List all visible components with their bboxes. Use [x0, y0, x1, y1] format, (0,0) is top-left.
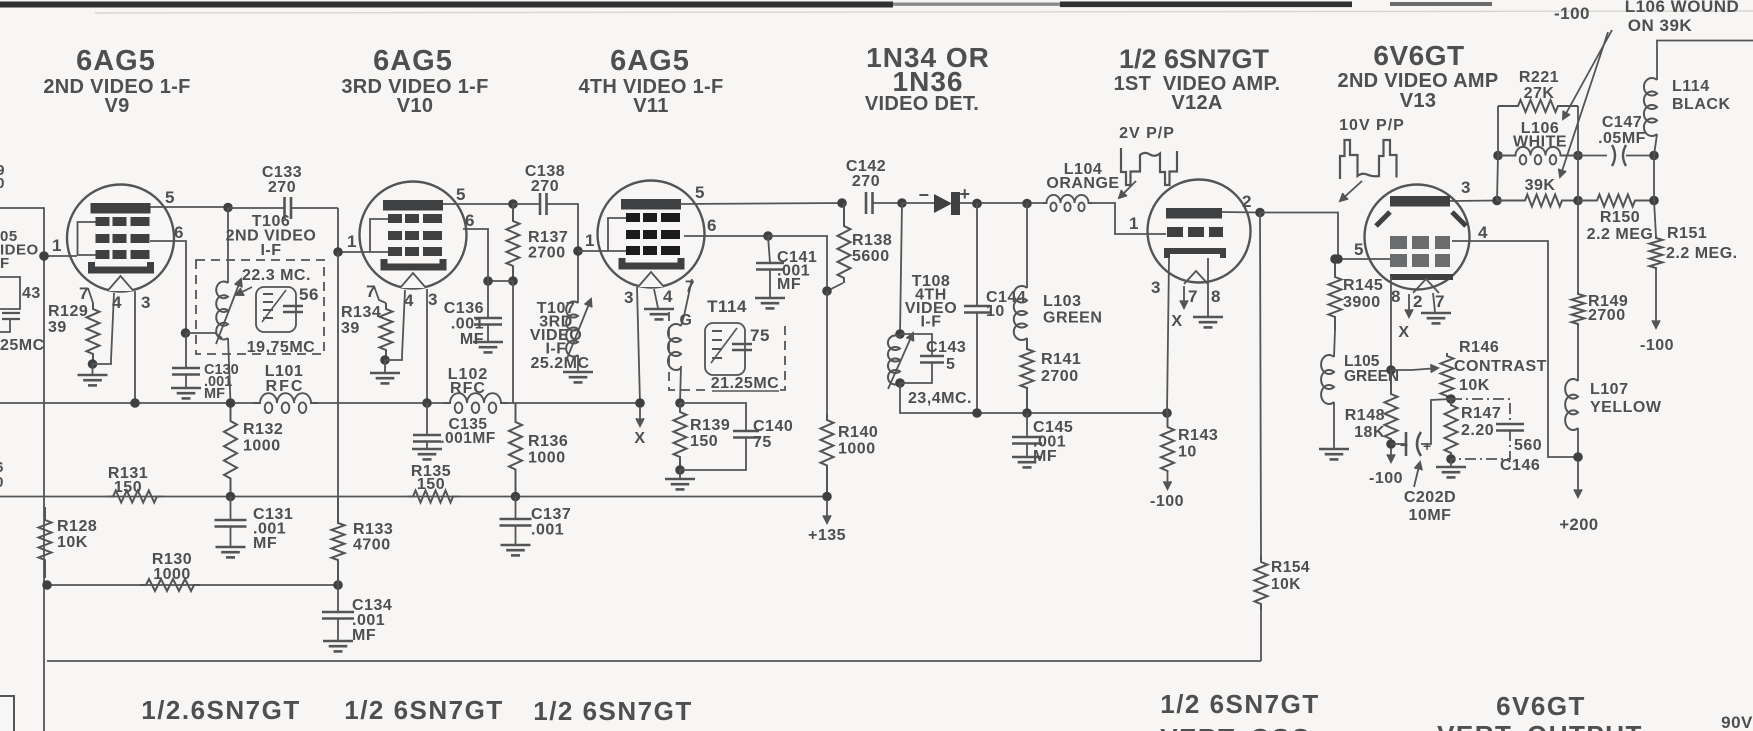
svg-text:27K: 27K [1524, 85, 1555, 102]
wire L103 to R141 [1026, 338, 1028, 349]
svg-text:1000: 1000 [838, 441, 876, 458]
svg-text:R138: R138 [852, 232, 892, 249]
label C142 [846, 158, 886, 190]
wire R149 to L107 [1577, 326, 1579, 381]
label R145 [1343, 277, 1383, 311]
wire screen to R138 [768, 236, 827, 291]
wire C135 lead [426, 403, 428, 435]
resistor R146 contrast pot [1441, 353, 1454, 399]
ground V9 cathode [78, 375, 108, 385]
svg-text:1: 1 [347, 232, 357, 251]
node L103 top [1022, 199, 1032, 209]
svg-text:270: 270 [852, 173, 880, 190]
wire C140 bottom [680, 438, 746, 471]
svg-text:L106 WOUND: L106 WOUND [1625, 0, 1740, 16]
svg-text:X: X [634, 430, 645, 447]
arrow +135 [823, 500, 831, 523]
label R148 [1345, 407, 1385, 441]
svg-text:1000: 1000 [528, 450, 566, 467]
resistor R128 [39, 507, 52, 578]
node V9 cathode [88, 359, 98, 369]
pin 6 of V11 [707, 216, 717, 235]
label 10V P/P [1339, 117, 1405, 134]
wire grid return bus [47, 584, 338, 586]
resistor R131 [107, 491, 163, 503]
arrow 10V P/P [1340, 181, 1362, 201]
wire V11 pin3 [637, 287, 640, 403]
pin 2 of V12A [1242, 192, 1252, 211]
node R150 right [1649, 196, 1659, 206]
svg-text:.001: .001 [531, 522, 564, 539]
wire C147 link [1578, 155, 1607, 157]
label V9 title [76, 45, 156, 77]
wire V9 pin3 [134, 291, 136, 403]
svg-text:6V6GT: 6V6GT [1373, 40, 1464, 71]
wire L104 to V12A [1092, 203, 1166, 234]
svg-text:−: − [1400, 437, 1408, 453]
svg-text:43: 43 [22, 285, 41, 302]
wire R154 to bus [1260, 610, 1262, 661]
label L114 [1672, 78, 1731, 113]
svg-text:C202D: C202D [1404, 489, 1456, 506]
svg-text:1: 1 [1129, 214, 1139, 233]
inductor L103 [1014, 286, 1027, 340]
svg-text:CONTRAST: CONTRAST [1454, 358, 1547, 375]
svg-text:18K: 18K [1354, 424, 1385, 441]
label 22.3 MC. [242, 267, 311, 284]
wire T106 primary top lead [227, 260, 229, 283]
svg-text:2.2 MEG.: 2.2 MEG. [1666, 245, 1738, 262]
coil T108 [888, 336, 900, 385]
ground V10 cathode [370, 373, 400, 383]
svg-text:75: 75 [753, 434, 772, 451]
pin 8 of V13 [1391, 287, 1401, 306]
resistor R139 [674, 403, 687, 470]
node V10 grid [333, 247, 343, 257]
pin 5 of V9 [165, 188, 175, 207]
label V12A subtitle [1114, 73, 1281, 114]
svg-text:8: 8 [1391, 287, 1401, 306]
svg-text:3: 3 [1461, 178, 1471, 197]
arrow R143 -100 [1164, 472, 1172, 489]
transformer T106 core symbol [256, 287, 303, 332]
wire T106 secondary tap [186, 333, 222, 338]
ground C136 [473, 342, 503, 352]
node bus3 left [42, 580, 52, 590]
svg-text:22.3 MC.: 22.3 MC. [242, 267, 311, 284]
resistor R148 [1385, 370, 1398, 444]
label R140 [838, 424, 878, 458]
pin 3 of V11 [624, 288, 634, 307]
svg-text:2700: 2700 [1041, 368, 1079, 385]
wire V9 cathode gnd lead [92, 364, 94, 374]
wire V10 pin4 [385, 290, 405, 360]
svg-text:10V P/P: 10V P/P [1339, 117, 1405, 134]
wire V9 pin1 grid [44, 255, 77, 257]
svg-text:7: 7 [1188, 287, 1198, 306]
resistor R135 [407, 491, 459, 503]
pin 8 of V12A [1211, 287, 1221, 306]
pin 6 of V10 [465, 211, 475, 230]
partial label left 6 [0, 459, 4, 476]
resistor R141 [1021, 338, 1034, 413]
tube V10 [360, 182, 467, 289]
svg-text:7: 7 [79, 284, 89, 303]
label 19.75MC [247, 339, 315, 356]
pin 7 of V9 [79, 284, 89, 303]
svg-text:5600: 5600 [852, 248, 890, 265]
wire diode leads [902, 202, 934, 204]
svg-text:25.2MC: 25.2MC [530, 355, 589, 372]
node +135 [822, 492, 832, 502]
node V10 screen [483, 276, 493, 286]
label T108 [905, 273, 957, 331]
node R137 bottom [508, 276, 518, 286]
label R147 [1461, 405, 1501, 439]
label R134 [341, 304, 381, 337]
wire V9 pin7 [88, 288, 93, 303]
label C202D [1404, 489, 1456, 524]
node T108 top [895, 329, 905, 339]
wire V9 pin5 plate [150, 206, 228, 208]
inductor L106 [1498, 147, 1578, 165]
label V13 title [1373, 40, 1464, 71]
svg-text:25MC: 25MC [0, 337, 45, 354]
label R146 [1459, 339, 1499, 356]
wire V11 pin6 [684, 235, 768, 237]
label R128 [57, 518, 97, 551]
svg-text:5: 5 [165, 188, 175, 207]
resistor 39K [1497, 195, 1578, 207]
svg-text:I-F: I-F [260, 242, 281, 259]
label R138 [852, 232, 892, 265]
svg-text:MF: MF [253, 535, 277, 552]
label C130 [204, 362, 239, 402]
label R149 [1588, 293, 1628, 324]
wire L114 bottom lead [1654, 134, 1657, 156]
svg-text:-100: -100 [1369, 470, 1403, 487]
label R151 value [1666, 245, 1738, 262]
partial label left 0 [0, 474, 4, 491]
coil T106 primary arrow [216, 279, 242, 344]
capacitor C134 [322, 612, 354, 619]
wire R221 right [1577, 106, 1579, 156]
svg-text:19,75MC: 19,75MC [247, 339, 315, 356]
transformer T106 box [196, 260, 324, 354]
label R133 [353, 521, 393, 554]
inductor L105 [1321, 355, 1334, 404]
node L106 right [1573, 151, 1583, 161]
svg-text:270: 270 [531, 178, 559, 195]
svg-text:YELLOW: YELLOW [1590, 399, 1662, 416]
svg-text:R128: R128 [57, 518, 97, 535]
ground L105 [1319, 449, 1349, 459]
node V13 plate [1492, 196, 1502, 206]
wire C140 loop [680, 403, 746, 431]
scan edge bar [0, 2, 1753, 14]
label R143 [1178, 427, 1218, 461]
node R145 top [1330, 254, 1340, 264]
inductor L101 [253, 393, 318, 413]
svg-text:V9: V9 [104, 95, 129, 117]
label R129 [48, 303, 88, 336]
pin G of T114 [680, 312, 693, 329]
svg-text:.05MF: .05MF [1598, 130, 1646, 147]
svg-text:G: G [680, 312, 693, 329]
label C136 [444, 300, 484, 348]
ground C131 [216, 547, 246, 557]
node V10 pin3 on AGC bus [422, 398, 432, 408]
svg-text:5: 5 [695, 183, 705, 202]
capacitor C131 [215, 520, 247, 527]
label detector title [866, 42, 990, 97]
inductor L114 [1644, 78, 1657, 136]
label V11 title [610, 45, 690, 77]
svg-text:39: 39 [341, 320, 360, 337]
svg-text:.001MF: .001MF [440, 430, 496, 447]
svg-text:C136: C136 [444, 300, 484, 317]
wire R154 feed [1260, 213, 1261, 557]
label V10 title [373, 45, 453, 77]
label L105 [1344, 353, 1399, 385]
svg-text:C137: C137 [531, 506, 571, 523]
capacitor C146 [1496, 424, 1524, 431]
pin 7 of V12A [1188, 287, 1198, 306]
resistor R140 [821, 414, 834, 497]
svg-text:7: 7 [1435, 292, 1445, 311]
svg-text:1/2 6SN7GT: 1/2 6SN7GT [1119, 44, 1270, 74]
label C145 [1033, 419, 1073, 465]
label +200 [1559, 516, 1598, 534]
ground R139 [665, 479, 695, 489]
coil T108 arrow [888, 333, 913, 389]
label V9 subtitle [43, 76, 190, 117]
partial label C129 [0, 162, 5, 179]
capacitor C142 [866, 192, 873, 214]
label R136 [528, 433, 568, 467]
pin 4 of V10 [404, 291, 414, 310]
svg-text:RFC: RFC [450, 380, 486, 397]
node R132 top [226, 398, 236, 408]
svg-text:270: 270 [268, 179, 296, 196]
svg-text:V10: V10 [397, 95, 434, 117]
wire R221 loop [1497, 106, 1499, 156]
wire plate node vert [1497, 156, 1498, 201]
label L103 [1043, 293, 1102, 327]
arrow 2V P/P [1119, 181, 1136, 198]
svg-text:150: 150 [417, 476, 445, 493]
wire screen bus [0, 496, 827, 498]
svg-text:1/2 6SN7GT: 1/2 6SN7GT [533, 696, 693, 726]
wire C136 lead [487, 281, 489, 318]
svg-text:5: 5 [946, 356, 955, 373]
svg-text:R145: R145 [1343, 277, 1383, 294]
node 39K right [1573, 196, 1583, 206]
wire C131 lead [230, 497, 232, 521]
node +200 [1573, 452, 1583, 462]
wire V9 plate to T106 [227, 208, 229, 261]
wire C202D left lead [1391, 443, 1405, 445]
svg-text:ORANGE: ORANGE [1046, 175, 1119, 192]
svg-text:10K: 10K [57, 534, 88, 551]
svg-text:6: 6 [174, 223, 184, 242]
svg-text:150: 150 [114, 479, 142, 496]
node V10 cathode [380, 355, 390, 365]
label 21.25MC [711, 375, 779, 392]
capacitor C138 [540, 193, 547, 215]
label bottom 1/2 6SN7GT (4) [1160, 689, 1320, 719]
arrow X down [636, 407, 644, 426]
wire C141 lead [768, 236, 770, 263]
svg-text:L107: L107 [1590, 381, 1628, 398]
svg-text:10: 10 [986, 303, 1005, 320]
ground C145 [1012, 457, 1042, 467]
wire V9 pin6 [150, 241, 186, 333]
svg-text:R154: R154 [1271, 559, 1310, 576]
coil T114 grid winding [668, 324, 681, 370]
svg-text:R143: R143 [1178, 427, 1218, 444]
node R141 bottom [1022, 408, 1032, 418]
node T108 bottom [895, 378, 905, 388]
arrow R148 -100 [1387, 448, 1395, 462]
coil T106 primary [216, 282, 228, 340]
node V11 screen [763, 231, 773, 241]
pin 5 of V13 [1354, 240, 1364, 259]
transformer T105 partial box [0, 277, 20, 332]
svg-text:T114: T114 [707, 297, 747, 316]
wire R138 bottom lead [827, 283, 843, 291]
wire T107 coil top lead [577, 251, 579, 303]
ground V11 cathode [644, 309, 674, 319]
svg-text:10K: 10K [1271, 576, 1301, 593]
label L101 [265, 363, 303, 380]
wire L114 R150 vert [1653, 156, 1655, 201]
resistor R138 [838, 203, 851, 283]
node label X [634, 430, 645, 447]
diode 1N34 video detector [934, 192, 960, 215]
wire V13 pin4 [1452, 241, 1578, 457]
label diode plus [959, 184, 970, 204]
node label X V12A [1171, 313, 1182, 330]
svg-text:39K: 39K [1525, 177, 1556, 194]
label R139 [690, 417, 730, 450]
svg-text:VERT. OSC.: VERT. OSC. [1160, 723, 1319, 731]
node V9 pin3 on AGC bus [130, 398, 140, 408]
wire C145 lead [1026, 413, 1028, 437]
node V13 cathode junction [1386, 365, 1396, 375]
pin 7 of V11 [685, 277, 695, 296]
ground C130 [171, 388, 201, 398]
svg-text:2: 2 [1242, 192, 1252, 211]
node V13 grid [1333, 254, 1343, 264]
node R138 top [837, 198, 847, 208]
node V9 plate junction [223, 203, 233, 213]
svg-text:C147: C147 [1602, 114, 1642, 131]
label 90V [1721, 713, 1753, 731]
svg-text:3: 3 [1151, 278, 1161, 297]
wire V10 pin3 [426, 289, 428, 403]
pin 2 of V13 [1413, 292, 1423, 311]
arrow R151 -100 [1652, 270, 1660, 328]
capacitor C137 [500, 519, 532, 526]
svg-text:150: 150 [690, 433, 718, 450]
wire screen feed [512, 281, 514, 403]
svg-text:4: 4 [112, 293, 122, 312]
svg-text:+: + [1423, 438, 1431, 454]
svg-text:3: 3 [141, 293, 151, 312]
svg-text:5: 5 [1354, 240, 1364, 259]
ground C137 [501, 545, 531, 555]
resistor R154 [1255, 556, 1268, 610]
svg-text:39: 39 [48, 319, 67, 336]
transformer T114 box [669, 312, 785, 390]
node L114 bottom [1649, 151, 1659, 161]
resistor R137 [507, 204, 520, 281]
wire C131 gnd lead [230, 527, 232, 546]
svg-text:1000: 1000 [243, 438, 281, 455]
svg-text:6: 6 [465, 211, 475, 230]
svg-text:R129: R129 [48, 303, 88, 320]
node T106 secondary [181, 328, 191, 338]
node C144 top [972, 199, 982, 209]
pin 1 of V11 [585, 231, 595, 250]
resistor R145 [1329, 259, 1342, 330]
svg-text:4: 4 [663, 287, 673, 306]
tube V9 [67, 185, 174, 292]
wire L103 top lead [1026, 203, 1028, 288]
svg-text:R150: R150 [1600, 209, 1640, 226]
wire C146 top link [1451, 399, 1510, 422]
svg-text:V11: V11 [633, 95, 668, 117]
svg-text:L114: L114 [1672, 78, 1710, 95]
label R130 [152, 551, 192, 583]
pin 1 of V12A [1129, 214, 1139, 233]
svg-text:2: 2 [1413, 292, 1423, 311]
label detector subtitle [865, 93, 979, 115]
capacitor C145 [1012, 437, 1042, 444]
svg-text:7: 7 [685, 277, 695, 296]
svg-text:MF: MF [1033, 448, 1057, 465]
svg-text:6AG5: 6AG5 [373, 45, 453, 77]
label bottom 1/2 6SN7GT (2) [344, 695, 504, 725]
arrow +200 [1574, 461, 1582, 497]
partial box bottom-left [0, 696, 14, 731]
svg-text:MF: MF [460, 331, 484, 348]
wire R145 to L105 [1334, 330, 1335, 357]
svg-text:2700: 2700 [1588, 307, 1626, 324]
svg-text:RFC: RFC [266, 378, 305, 395]
svg-text:F: F [0, 255, 10, 272]
svg-text:R221: R221 [1519, 69, 1559, 86]
capacitor C130 [172, 368, 200, 375]
wire plate to V13 grid [1260, 213, 1390, 260]
pin 7 of V10 [366, 282, 376, 301]
waveform 2V P/P [1121, 148, 1177, 185]
resistor R147 [1445, 399, 1458, 459]
wire C137 lead [515, 497, 517, 520]
label C143 value [946, 356, 955, 373]
svg-text:R151: R151 [1667, 225, 1707, 242]
wire R139 gnd lead [679, 470, 681, 478]
wire V9 grid bypass [185, 333, 187, 368]
partial label T105 [0, 228, 39, 272]
svg-text:0: 0 [0, 175, 5, 192]
label R221 [1519, 69, 1559, 102]
label diode minus [918, 185, 929, 205]
svg-text:2V P/P: 2V P/P [1119, 125, 1175, 142]
label R151 [1667, 225, 1707, 242]
label bottom 1/2 6SN7GT (3) [533, 696, 693, 726]
